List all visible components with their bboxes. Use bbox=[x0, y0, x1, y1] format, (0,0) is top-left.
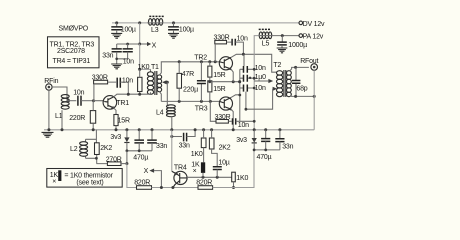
wire and ground below bbox=[115, 58, 118, 64]
wire L1 to rail bbox=[61, 110, 63, 130]
wire TR1 collector line bbox=[114, 93, 152, 97]
wire L5 left to supply bus bbox=[253, 36, 259, 130]
svg-text:220µ: 220µ bbox=[183, 86, 198, 93]
capacitor 33n decoupling bbox=[102, 44, 122, 60]
svg-text:TR2: TR2 bbox=[194, 54, 207, 61]
resistor 1K0 horizontal bbox=[232, 172, 249, 189]
wire 270R node down to bottom rail bbox=[127, 164, 137, 188]
transformer T2 core bbox=[284, 70, 286, 97]
wire cluster bottom bbox=[125, 149, 152, 165]
resistor 15R lower bbox=[208, 81, 226, 102]
wire TR3 base line bbox=[161, 100, 219, 103]
svg-text:10n: 10n bbox=[123, 58, 134, 65]
wire TR1 emitter bbox=[114, 108, 117, 115]
wire to decoupling caps bbox=[117, 43, 140, 46]
svg-text:×: × bbox=[52, 179, 56, 186]
resistor 330R TR1 feedback bbox=[92, 75, 116, 101]
svg-text:L5: L5 bbox=[262, 40, 270, 47]
resistor 820R right bbox=[196, 150, 254, 189]
svg-text:SMØVPO: SMØVPO bbox=[59, 26, 89, 33]
wire RFout ground drop bbox=[313, 70, 315, 130]
capacitor 10n decoupling bbox=[117, 44, 134, 65]
transistor TR2 bbox=[194, 54, 232, 70]
svg-text:1000µ: 1000µ bbox=[288, 42, 307, 49]
svg-text:33n: 33n bbox=[156, 143, 167, 150]
wire T2 secondary top to RFout bbox=[290, 66, 309, 71]
resistor 330R TR2 feedback bbox=[214, 35, 232, 62]
resistor 47R bbox=[177, 62, 194, 102]
svg-text:10n: 10n bbox=[255, 85, 266, 92]
thermistor 1K bbox=[191, 162, 205, 178]
svg-text:68p: 68p bbox=[296, 85, 307, 92]
inductor L2 with resistor 2K2 bbox=[86, 130, 108, 164]
capacitor 1000u bbox=[277, 36, 307, 49]
ground bbox=[277, 48, 288, 53]
parts box bbox=[48, 37, 100, 68]
capacitor 10n input bbox=[67, 90, 95, 106]
svg-text:DV 12v: DV 12v bbox=[303, 21, 325, 28]
T2 center tap arrow bbox=[254, 79, 273, 83]
title SM0VPO bbox=[59, 26, 89, 33]
capacitor 10n TR3 feedback bbox=[233, 118, 255, 129]
transistor TR3 bbox=[195, 97, 233, 112]
svg-text:10n: 10n bbox=[237, 36, 248, 43]
ground bbox=[111, 33, 122, 38]
capacitor bank 10n top bbox=[240, 54, 266, 72]
svg-text:RFout: RFout bbox=[300, 58, 318, 65]
transformer T1 primary bbox=[147, 69, 153, 94]
svg-text:TR1: TR1 bbox=[116, 100, 129, 107]
svg-text:10n: 10n bbox=[238, 122, 249, 129]
wire TR3 collector up bbox=[231, 95, 240, 98]
wire RFin ground bbox=[48, 90, 50, 130]
wire TR2 emitter down bbox=[231, 69, 233, 82]
resistor 2K2 right bbox=[209, 130, 230, 167]
wire T2 secondary bottom bbox=[290, 95, 316, 98]
transformer T2 primary bbox=[273, 62, 282, 97]
svg-text:1K0: 1K0 bbox=[191, 151, 203, 158]
inductor L4 bbox=[156, 105, 175, 117]
capacitor 10u bbox=[213, 159, 230, 177]
svg-text:10µ: 10µ bbox=[218, 159, 229, 166]
dots TR2 base line bbox=[178, 60, 217, 63]
resistor 15R TR1 bbox=[114, 115, 130, 130]
svg-text:X: X bbox=[152, 42, 157, 49]
capacitor 220u bbox=[183, 62, 206, 102]
svg-text:33n: 33n bbox=[179, 143, 190, 150]
resistor 2K2 (L2) bbox=[95, 143, 113, 155]
node X arrow bbox=[141, 42, 157, 49]
svg-text:270R: 270R bbox=[106, 156, 122, 163]
svg-text:2SC2078: 2SC2078 bbox=[57, 48, 85, 55]
svg-text:L2: L2 bbox=[70, 146, 78, 153]
svg-text:X: X bbox=[144, 168, 149, 175]
capacitor 10n TR2 feedback bbox=[232, 36, 248, 55]
svg-text:1µ0: 1µ0 bbox=[255, 74, 267, 81]
svg-text:47R: 47R bbox=[182, 71, 194, 78]
terminal RFout bbox=[300, 58, 318, 70]
svg-text:10n: 10n bbox=[122, 77, 133, 84]
svg-text:10n: 10n bbox=[255, 65, 266, 72]
thermistor legend box bbox=[47, 169, 122, 188]
resistor 270R bbox=[106, 156, 127, 165]
mid ground rail bbox=[44, 128, 314, 131]
capacitor 100u left bbox=[111, 23, 136, 33]
svg-text:TR4 = TIP31: TR4 = TIP31 bbox=[53, 58, 91, 65]
svg-text:1K0 T1: 1K0 T1 bbox=[138, 64, 160, 71]
capacitor bank 10n bottom bbox=[240, 85, 266, 92]
capacitor 33n left cluster bbox=[147, 130, 167, 151]
label 1K0 T1 bbox=[138, 64, 160, 71]
svg-text:2K2: 2K2 bbox=[100, 145, 112, 152]
inductor L1 bbox=[55, 95, 70, 121]
capacitor 470u left bbox=[133, 130, 148, 162]
wire center tap down to L4 bbox=[167, 82, 169, 106]
terminal PA 12v bbox=[299, 33, 324, 40]
wire T1 secondary top to TR2 base bbox=[159, 62, 219, 75]
wire L5 right to PA bbox=[272, 34, 299, 37]
ground left end bbox=[42, 132, 54, 137]
terminal DV 12v bbox=[299, 21, 325, 28]
svg-text:TR4: TR4 bbox=[174, 164, 187, 171]
wire T1 secondary bottom to TR3 base bbox=[159, 92, 161, 102]
node X arrow lower bbox=[144, 168, 163, 189]
inductor L5 bbox=[259, 29, 272, 47]
svg-text:15R: 15R bbox=[118, 118, 130, 125]
svg-text:T2: T2 bbox=[273, 62, 281, 69]
ground bbox=[111, 64, 122, 69]
svg-text:×: × bbox=[193, 168, 197, 175]
capacitor 68p bbox=[292, 67, 308, 96]
wire emitter junction line bbox=[208, 80, 241, 83]
svg-text:PA 12v: PA 12v bbox=[303, 33, 324, 40]
svg-text:100µ: 100µ bbox=[179, 26, 194, 33]
svg-text:220R: 220R bbox=[69, 115, 85, 122]
resistor 1K0 (T1 damping) bbox=[138, 69, 142, 94]
svg-text:820R: 820R bbox=[196, 180, 212, 187]
wire TR2 collector line bbox=[231, 53, 277, 72]
resistor 15R upper bbox=[208, 62, 226, 81]
svg-text:15R: 15R bbox=[213, 72, 225, 79]
transistor TR1 bbox=[103, 96, 129, 110]
svg-text:330R: 330R bbox=[92, 75, 108, 82]
wire to TR1 base bbox=[94, 100, 105, 103]
resistor 1K0 (top of thermistor) bbox=[191, 130, 206, 162]
capacitor 470u right bbox=[257, 130, 272, 161]
svg-text:100µ: 100µ bbox=[121, 26, 136, 33]
wire RFin to coupling cap bbox=[52, 87, 67, 101]
svg-text:= 1K0 thermistor: = 1K0 thermistor bbox=[64, 172, 113, 179]
zener 3v3 right bbox=[236, 130, 257, 150]
wire L4 to rail bbox=[171, 117, 173, 130]
T2 primary bottom return bbox=[245, 87, 278, 111]
svg-text:3v3: 3v3 bbox=[110, 134, 121, 141]
svg-text:33n: 33n bbox=[282, 144, 293, 151]
transformer T2 secondary bbox=[287, 71, 292, 97]
wire TR3 emitter to rail bbox=[231, 109, 233, 130]
zener 3v3 left bbox=[110, 130, 129, 151]
node dots top rail bbox=[115, 21, 175, 24]
svg-text:10n: 10n bbox=[73, 90, 84, 97]
wire top DV rail bbox=[112, 22, 299, 24]
wire supply drop to X node bbox=[138, 23, 141, 46]
wire right cluster bottom bbox=[253, 149, 280, 152]
capacitor 10n TR1 feedback bbox=[117, 77, 133, 94]
svg-text:330R: 330R bbox=[215, 114, 231, 121]
inductor L2 bbox=[70, 142, 88, 157]
transformer T1 core bbox=[155, 71, 157, 95]
wire supply drop to T1 bbox=[138, 44, 150, 71]
input: RFin terminal bbox=[44, 78, 58, 90]
svg-text:470µ: 470µ bbox=[257, 154, 272, 161]
T1 center tap arrow bbox=[162, 80, 169, 84]
svg-text:33n: 33n bbox=[102, 53, 113, 60]
svg-text:2K2: 2K2 bbox=[219, 145, 231, 152]
transformer T1 secondary bbox=[157, 75, 162, 92]
capacitor 33n right bbox=[275, 130, 293, 151]
svg-text:L3: L3 bbox=[151, 27, 159, 34]
svg-text:820R: 820R bbox=[134, 180, 150, 187]
svg-text:470µ: 470µ bbox=[133, 155, 148, 162]
resistor 220R bbox=[69, 101, 96, 130]
resistor 820R left bbox=[134, 180, 198, 190]
svg-text:L4: L4 bbox=[156, 110, 164, 117]
ground bbox=[168, 33, 179, 38]
svg-text:15R: 15R bbox=[213, 86, 225, 93]
inductor L3 bbox=[147, 16, 164, 33]
capacitor bank 1u0 bbox=[240, 74, 266, 82]
wire TR4 base line right bbox=[187, 176, 232, 179]
svg-text:1K0: 1K0 bbox=[236, 175, 248, 182]
svg-text:(see text): (see text) bbox=[76, 179, 103, 186]
capacitor 33n (TR4 collector decoupling) bbox=[170, 128, 196, 149]
svg-text:330R: 330R bbox=[214, 35, 230, 42]
svg-text:TR3: TR3 bbox=[195, 105, 208, 112]
svg-text:3v3: 3v3 bbox=[236, 137, 247, 144]
resistor 330R TR3 feedback bbox=[210, 101, 231, 123]
transistor TR4 bbox=[171, 130, 187, 189]
wire TR3 collector bus bbox=[238, 69, 241, 121]
capacitor 100u right bbox=[168, 23, 194, 33]
